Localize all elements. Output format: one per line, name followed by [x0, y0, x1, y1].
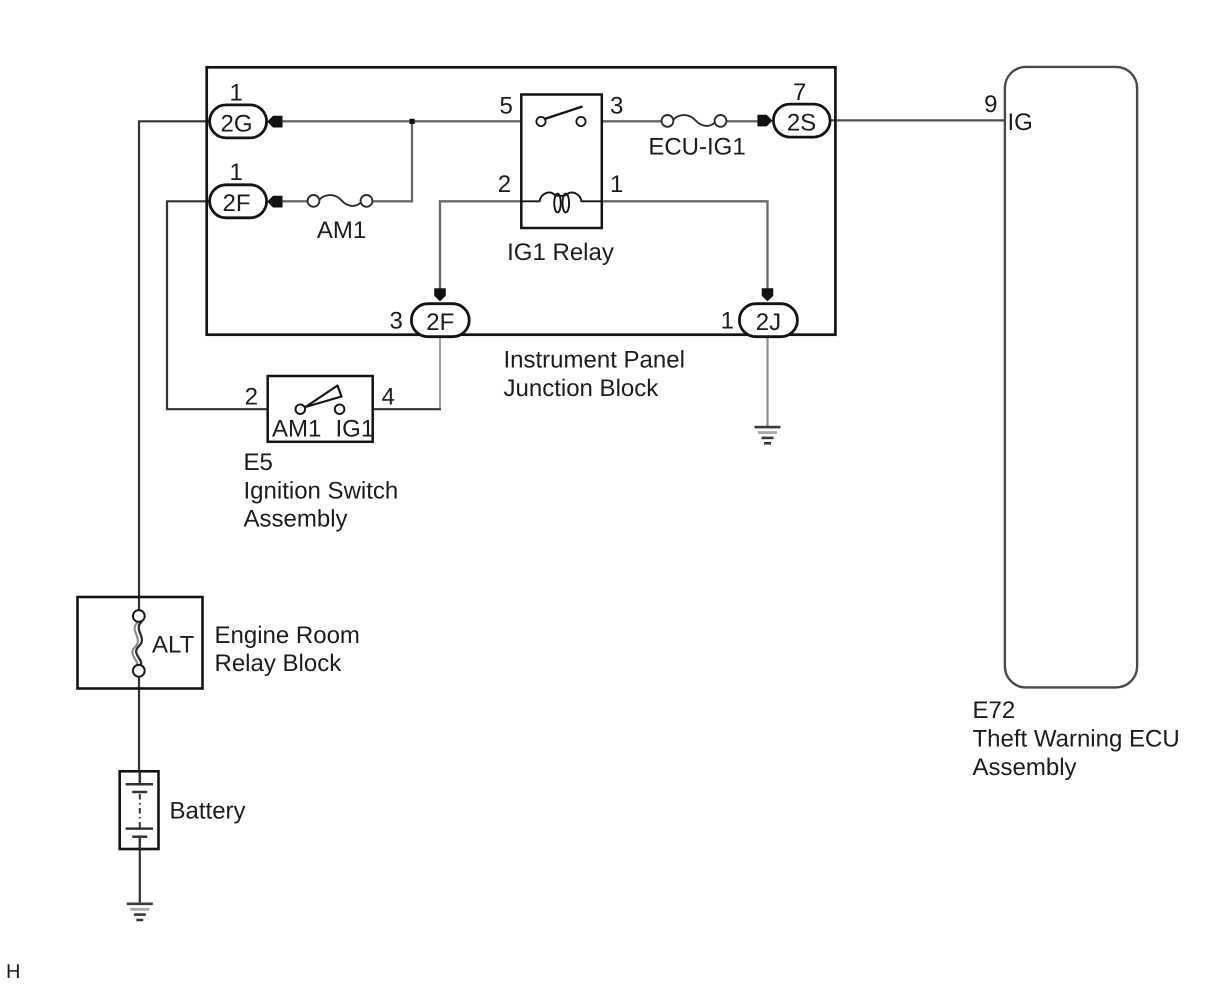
svg-text:2J: 2J	[756, 309, 781, 336]
svg-text:2: 2	[245, 384, 258, 411]
wire: E5 pin 4 right to vertical riser	[374, 408, 441, 410]
arrow into 2G	[267, 116, 282, 128]
svg-text:AM1: AM1	[272, 416, 321, 443]
svg-text:2S: 2S	[787, 110, 816, 137]
svg-text:IG: IG	[1008, 109, 1033, 136]
svg-text:3: 3	[610, 92, 623, 119]
connector 2F pin 3	[389, 304, 469, 337]
wire: ECU-IG1 fuse to 2S arrow	[726, 120, 760, 122]
wire: battery bottom to ground	[139, 849, 141, 903]
svg-text:Engine Room: Engine Room	[215, 622, 360, 649]
svg-text:IG1: IG1	[336, 416, 375, 443]
wire: 2G arrow to relay pin 5	[282, 120, 521, 122]
arrow into 2F pin 3	[434, 288, 446, 301]
svg-text:Assembly: Assembly	[973, 754, 1077, 781]
E72 theft warning ECU box	[1005, 67, 1137, 688]
wire: 2G left to ALT (battery feed)	[139, 121, 209, 611]
svg-text:Ignition Switch: Ignition Switch	[244, 477, 399, 504]
svg-text:2F: 2F	[426, 309, 454, 336]
instrument panel junction block box	[207, 67, 836, 334]
ground under battery	[127, 903, 153, 922]
wire: relay pin 1 down to 2J arrow	[602, 201, 768, 290]
connector 2G (pin 1)	[210, 79, 267, 138]
arrow into 2J	[762, 288, 774, 301]
svg-text:7: 7	[793, 79, 806, 106]
svg-text:AM1: AM1	[317, 217, 366, 244]
E5 switch contact IG1	[335, 404, 345, 414]
fuse ECU-IG1	[662, 115, 727, 127]
battery	[120, 771, 159, 849]
wire: riser from 2F pin3 down to E5 level	[439, 337, 441, 409]
wire: ALT bottom to battery top	[138, 676, 140, 772]
wire: relay pin 2 down to 2F pin3 arrow	[440, 201, 521, 290]
svg-text:H: H	[6, 961, 20, 983]
svg-text:Battery: Battery	[170, 798, 246, 825]
E5 ignition switch box	[268, 376, 373, 442]
connector 2F pin 1	[210, 159, 267, 218]
svg-text:4: 4	[382, 384, 395, 411]
svg-text:2: 2	[498, 171, 511, 198]
svg-text:1: 1	[610, 171, 623, 198]
battery center dash-dot	[139, 794, 141, 828]
wire: 2J down to ground	[766, 337, 768, 427]
E5 switch contact AM1	[296, 404, 306, 414]
connector 2J (pin 1)	[721, 304, 798, 337]
svg-text:E5: E5	[244, 449, 273, 476]
svg-text:E72: E72	[973, 697, 1016, 724]
relay box IG1	[521, 95, 602, 229]
svg-text:2F: 2F	[222, 190, 250, 217]
relay switch contacts	[536, 117, 585, 126]
svg-text:ECU-IG1: ECU-IG1	[648, 134, 745, 161]
svg-text:Theft Warning ECU: Theft Warning ECU	[973, 726, 1180, 753]
fuse AM1	[308, 195, 373, 207]
wire: 2F pin1 left down to E5 pin 2	[167, 201, 267, 409]
connector 2S (pin 7)	[773, 79, 830, 137]
svg-text:Instrument Panel: Instrument Panel	[504, 347, 685, 374]
E5 switch blade	[306, 386, 342, 408]
svg-text:IG1 Relay: IG1 Relay	[507, 239, 614, 266]
arrow into 2S	[757, 115, 772, 127]
svg-text:1: 1	[721, 307, 734, 334]
engine room relay block box	[78, 597, 203, 689]
battery plates	[126, 772, 153, 849]
arrow into 2F	[267, 196, 282, 208]
svg-text:Junction Block: Junction Block	[504, 375, 660, 402]
svg-text:5: 5	[499, 92, 512, 119]
wire: relay pin 3 to ECU-IG1 fuse	[602, 120, 663, 122]
wire: 2S to E72 pin 9	[831, 119, 1004, 121]
svg-text:1: 1	[230, 159, 243, 186]
fusible link ALT contacts	[133, 610, 145, 677]
relay coil	[521, 193, 602, 213]
svg-text:9: 9	[984, 91, 997, 118]
svg-text:ALT: ALT	[152, 632, 195, 659]
fusible link ALT squiggle	[132, 622, 142, 668]
node: junction dot on 2G wire	[410, 119, 415, 124]
relay switch blade	[545, 107, 583, 120]
svg-text:2G: 2G	[220, 110, 252, 137]
svg-text:1: 1	[230, 79, 243, 106]
svg-text:3: 3	[389, 307, 402, 334]
wire: AM1 fuse to 2F arrow	[282, 200, 309, 202]
ground under 2J	[755, 426, 781, 445]
svg-text:Assembly: Assembly	[244, 506, 348, 533]
wire: junction riser down to AM1 fuse	[372, 121, 412, 201]
svg-text:Relay Block: Relay Block	[215, 650, 343, 677]
